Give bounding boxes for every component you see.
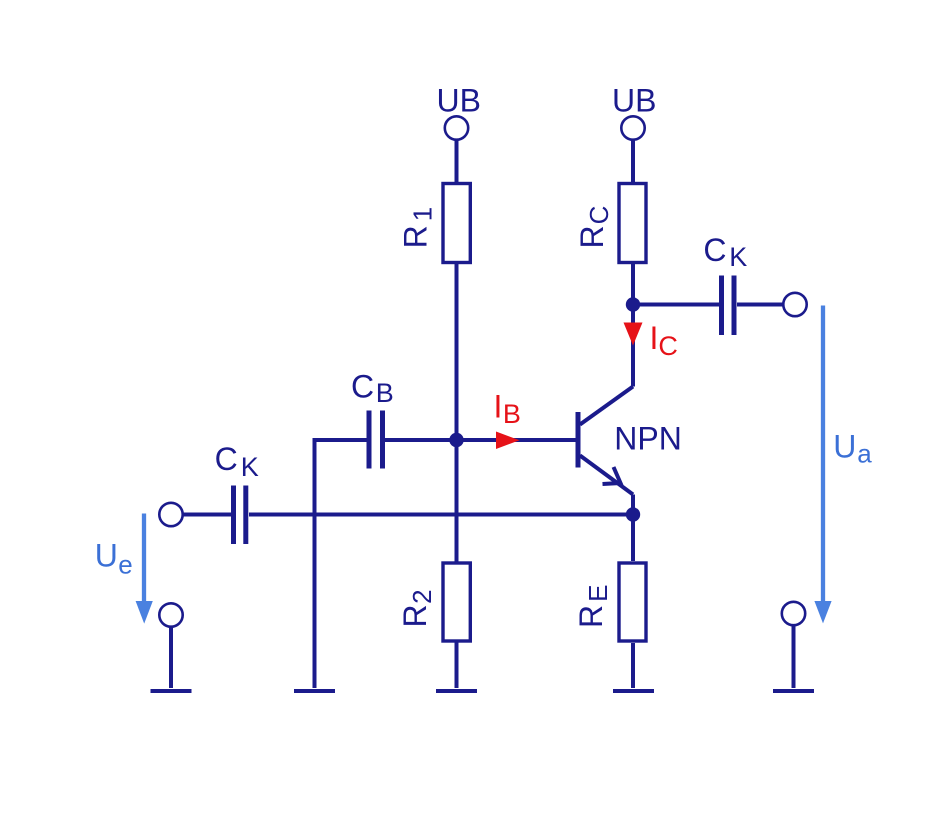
capacitor CB plates [369, 411, 383, 469]
capacitor CK output plates [722, 276, 735, 336]
resistor R2 [443, 563, 470, 641]
resistor RE [619, 563, 646, 641]
wire output lower terminal to ground [792, 625, 796, 688]
ground (CB branch) [294, 689, 335, 693]
wire base node to transistor base [457, 438, 577, 442]
svg-text:UB: UB [437, 83, 481, 119]
resistor R1 [443, 184, 470, 263]
arrow Ue (light blue) [136, 514, 153, 624]
node collector [626, 297, 640, 311]
terminal output lower [782, 602, 805, 625]
ground (RE) [613, 689, 654, 693]
wire collector node to output capacitor [633, 303, 719, 307]
wire emitter node down to RE [631, 515, 635, 562]
terminal output upper [783, 293, 806, 316]
node base [449, 433, 463, 447]
terminal input lower [159, 603, 182, 626]
ground (output) [773, 689, 814, 693]
ground (R2) [436, 689, 477, 693]
wire base node down to R2 [455, 440, 459, 562]
arrow IC (red) [624, 323, 643, 346]
ground (input) [151, 689, 192, 693]
wire CK output to terminal [737, 303, 784, 307]
wire UB2 to RC [631, 140, 635, 183]
svg-text:UB: UB [612, 83, 656, 119]
wire RC to collector node [631, 264, 635, 305]
wire R1 to base node [455, 264, 459, 440]
wire UB1 to R1 [455, 140, 459, 183]
wire CB branch down to ground [313, 438, 317, 688]
transistor Q1 emitter arrowhead [603, 467, 621, 484]
wire CB right plate to base node [385, 438, 457, 442]
transistor Q1 collector lead [580, 387, 633, 425]
wire RE to ground [631, 643, 635, 688]
svg-text:NPN: NPN [614, 421, 682, 457]
capacitor CK input plates [234, 486, 246, 545]
wire R2 to ground [455, 643, 459, 689]
transistor Q1 base bar [576, 412, 581, 468]
arrow Ua (light blue) [814, 306, 831, 624]
wire input terminal to CK [183, 513, 232, 517]
wire collector node to transistor corner [631, 305, 635, 387]
transistor Q1 emitter lead [580, 456, 633, 495]
terminal UB1 [445, 116, 468, 139]
terminal UB2 [621, 116, 644, 139]
wire emitter corner down to emitter node [631, 495, 635, 515]
wire CB left plate to branch corner [315, 438, 368, 442]
arrow IB (red) [496, 432, 520, 450]
wire input lower terminal to ground [169, 627, 173, 689]
resistor RC [619, 184, 646, 263]
node emitter [626, 507, 640, 521]
terminal input upper [159, 503, 182, 526]
wire CK input to emitter node [249, 513, 633, 517]
